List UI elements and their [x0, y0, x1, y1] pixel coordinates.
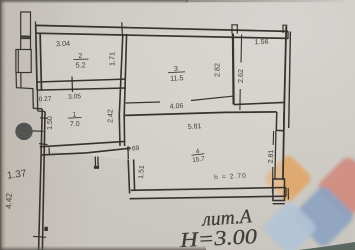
- svg-text:3.04: 3.04: [56, 39, 70, 48]
- svg-text:2.81: 2.81: [268, 149, 275, 163]
- svg-text:1.51: 1.51: [138, 165, 146, 179]
- svg-text:2: 2: [78, 51, 82, 60]
- svg-text:1.50: 1.50: [47, 116, 54, 130]
- svg-text:11.5: 11.5: [170, 73, 184, 83]
- svg-text:5.81: 5.81: [188, 123, 202, 131]
- svg-text:5.2: 5.2: [76, 60, 86, 69]
- svg-text:2.62: 2.62: [236, 69, 245, 83]
- svg-text:0.69: 0.69: [126, 145, 140, 153]
- svg-text:2.82: 2.82: [213, 63, 222, 77]
- svg-text:3.05: 3.05: [68, 93, 82, 101]
- svg-text:7.0: 7.0: [70, 121, 80, 129]
- svg-text:0.27: 0.27: [38, 96, 52, 104]
- svg-text:1.71: 1.71: [108, 52, 117, 66]
- svg-text:3: 3: [174, 64, 178, 73]
- svg-text:4.06: 4.06: [170, 103, 184, 111]
- svg-text:1.56: 1.56: [254, 37, 268, 46]
- svg-text:2.42: 2.42: [108, 109, 115, 123]
